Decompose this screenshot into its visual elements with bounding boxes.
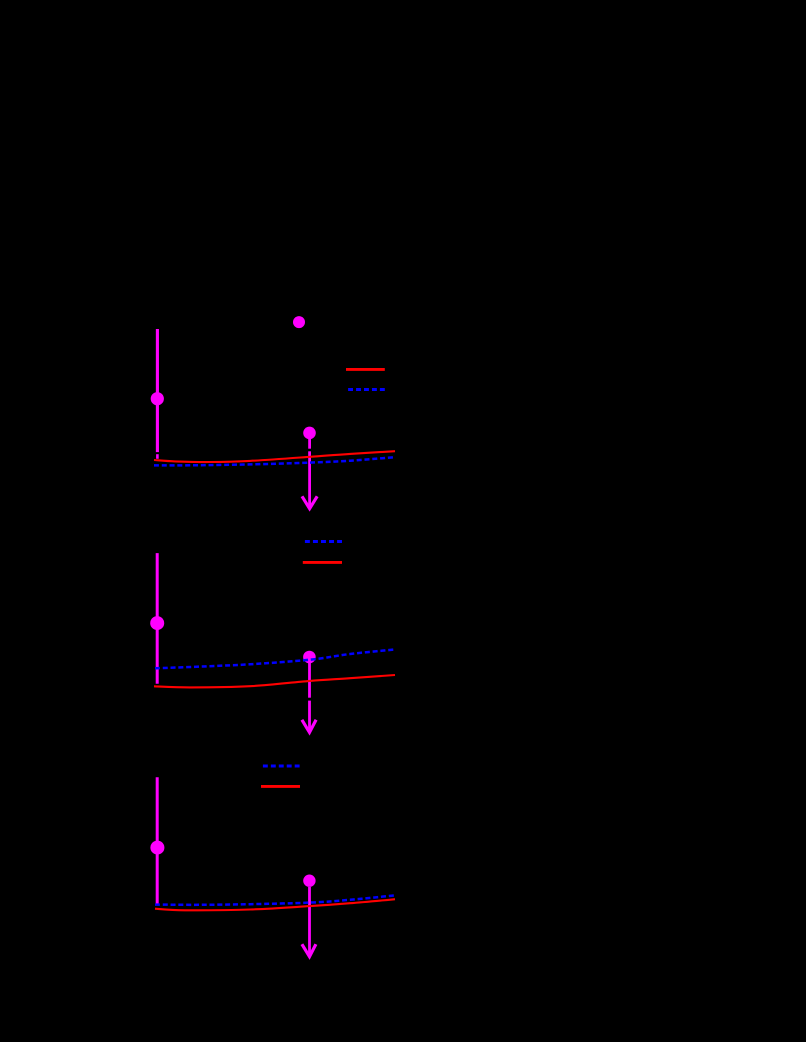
- panel 1: blue dashed model curve: [154, 457, 395, 465]
- panel 1: legend red solid line: [346, 368, 385, 371]
- panel 2: error bar (data point): [156, 553, 159, 684]
- panel 3: upper-limit arrow: [302, 887, 316, 957]
- panel 1: red model curve: [154, 451, 395, 462]
- panel 2: blue dashed model curve: [155, 650, 395, 669]
- panel 1: error bar (data point 1): [156, 329, 159, 459]
- panel 2: data point dot on error bar: [150, 616, 164, 630]
- panel 1: legend blue dashed line: [348, 388, 385, 391]
- panel 3: data point dot on error bar: [150, 841, 164, 855]
- panel 1: data point dot on error bar: [151, 392, 164, 405]
- panel 3: blue dashed model curve: [155, 895, 395, 904]
- panel 1: upper-limit arrow: [302, 439, 317, 509]
- panel 2: upper-limit data point: [303, 651, 316, 664]
- panel 3: upper-limit data point: [303, 875, 315, 887]
- panel 3: legend blue dashed line: [263, 765, 300, 768]
- panel 1: upper-limit data point: [303, 427, 316, 440]
- panel 3: legend red solid line: [261, 785, 300, 788]
- panel 3: red model curve: [155, 899, 395, 910]
- panel 2: red model curve: [154, 675, 395, 687]
- panel 2: legend red solid line: [303, 561, 342, 564]
- panel 2: upper-limit arrow: [302, 663, 316, 732]
- panel 3: error bar (data point): [156, 777, 159, 904]
- panel 2: legend blue dashed line: [305, 540, 342, 543]
- panel 1: isolated data point: [293, 316, 305, 328]
